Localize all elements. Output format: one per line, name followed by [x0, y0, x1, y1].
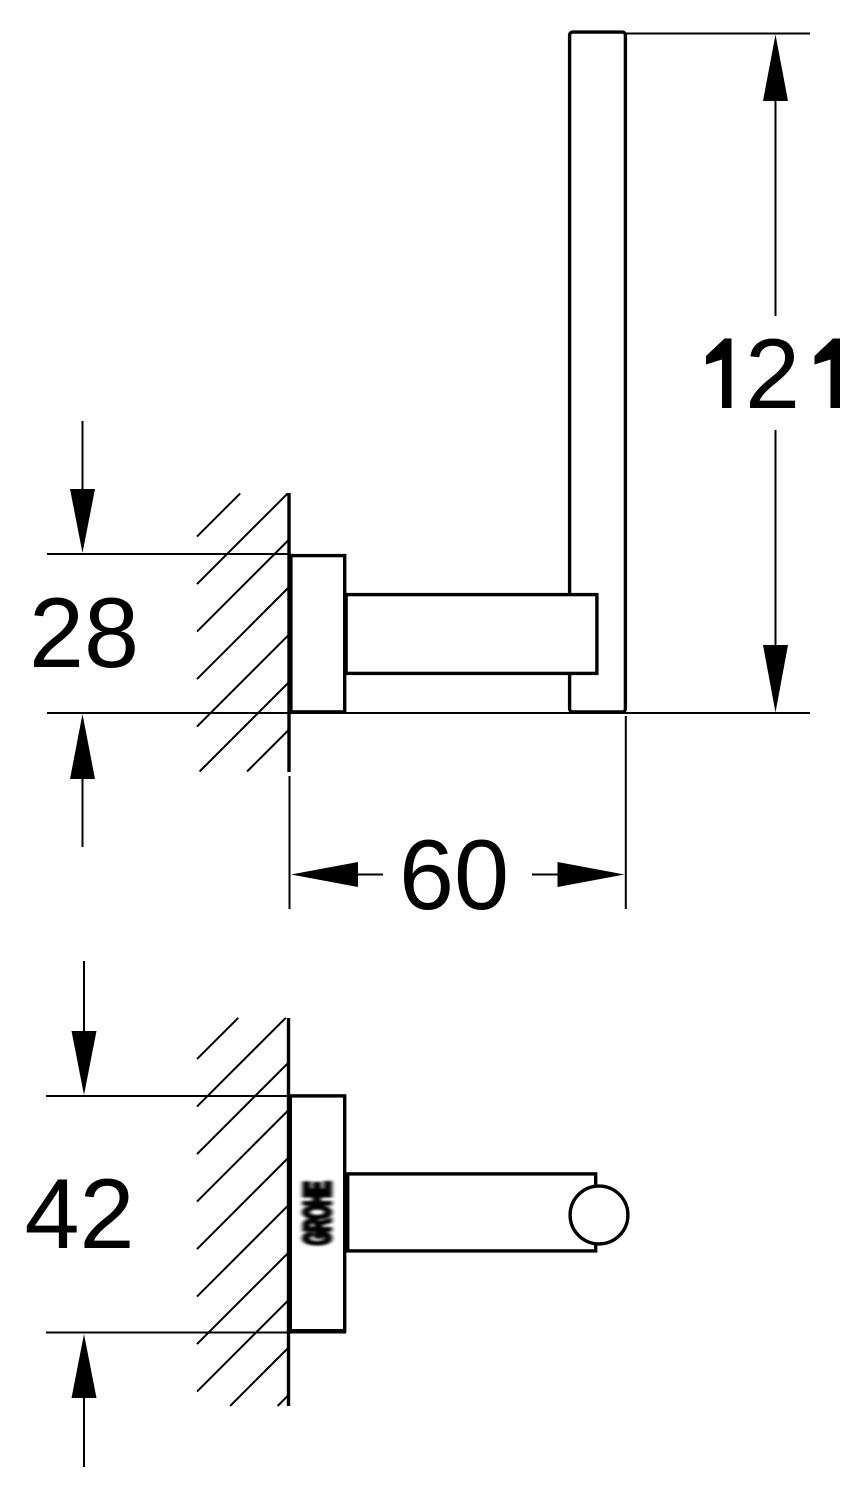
vertical holder bar (121 mm) [570, 32, 626, 712]
wall mounting plate (28 mm, top view) [291, 556, 345, 712]
wall section line (top view) [287, 493, 290, 772]
dimension 42 upper extension line [83, 961, 85, 1031]
rod (bottom view) [348, 1174, 596, 1251]
dimension 42 bottom line [46, 1332, 346, 1334]
dimension 28 lower arrowhead (pointing up) [70, 714, 95, 779]
horizontal arm (rod) from wall plate to bar [346, 595, 597, 674]
dimension 121 top reference line [626, 33, 810, 35]
dimension label 121 : digit 1 (custom Helvetica-style, no foot serif) [706, 339, 732, 409]
dimension 42 top line [46, 1095, 346, 1097]
dimension 60 left extension line [289, 776, 291, 909]
dimension 28 top line [47, 553, 291, 555]
dimension 42 lower arrowhead (pointing up) [72, 1334, 97, 1398]
svg-text:60: 60 [399, 819, 509, 930]
dimension 60 right extension line [625, 716, 627, 909]
svg-text:42: 42 [24, 1158, 134, 1269]
svg-text:GROHE: GROHE [298, 1181, 339, 1245]
dimension 121 lower arrowhead [763, 645, 788, 713]
dimension 42 upper arrowhead (pointing down) [72, 1031, 97, 1095]
svg-text:2: 2 [745, 318, 800, 429]
svg-text:28: 28 [29, 577, 139, 688]
dimension 60 left stub line [358, 874, 383, 876]
wall hatching (bottom view) [197, 1018, 289, 1406]
end knob circle (bottom view) [570, 1186, 628, 1244]
dimension 121 upper arrowhead [763, 35, 788, 102]
dimension 121 vertical line lower segment [775, 430, 777, 646]
wall hatching (top view) [197, 493, 289, 771]
dimension 28 lower extension line [82, 779, 84, 847]
dimension 28 upper extension line [82, 421, 84, 490]
dimension label 121 : digit 1 (second) [815, 339, 841, 409]
dimension 121 vertical line upper segment [775, 99, 777, 316]
wall section line (bottom view) [287, 1018, 290, 1406]
GROHE logo on plate (rotated) [298, 1181, 339, 1245]
dimension 60 right stub line [532, 874, 558, 876]
dimension 28 upper arrowhead (pointing down) [70, 489, 95, 553]
dimension 60 right arrowhead (pointing right) [558, 862, 625, 887]
dimension 121 bottom reference line (long thin line under bar and plate) [47, 712, 810, 714]
wall mounting plate (42 mm, bottom view) [290, 1096, 344, 1331]
dimension 42 lower extension line [83, 1398, 85, 1467]
dimension 60 left arrowhead (pointing left) [291, 862, 358, 887]
